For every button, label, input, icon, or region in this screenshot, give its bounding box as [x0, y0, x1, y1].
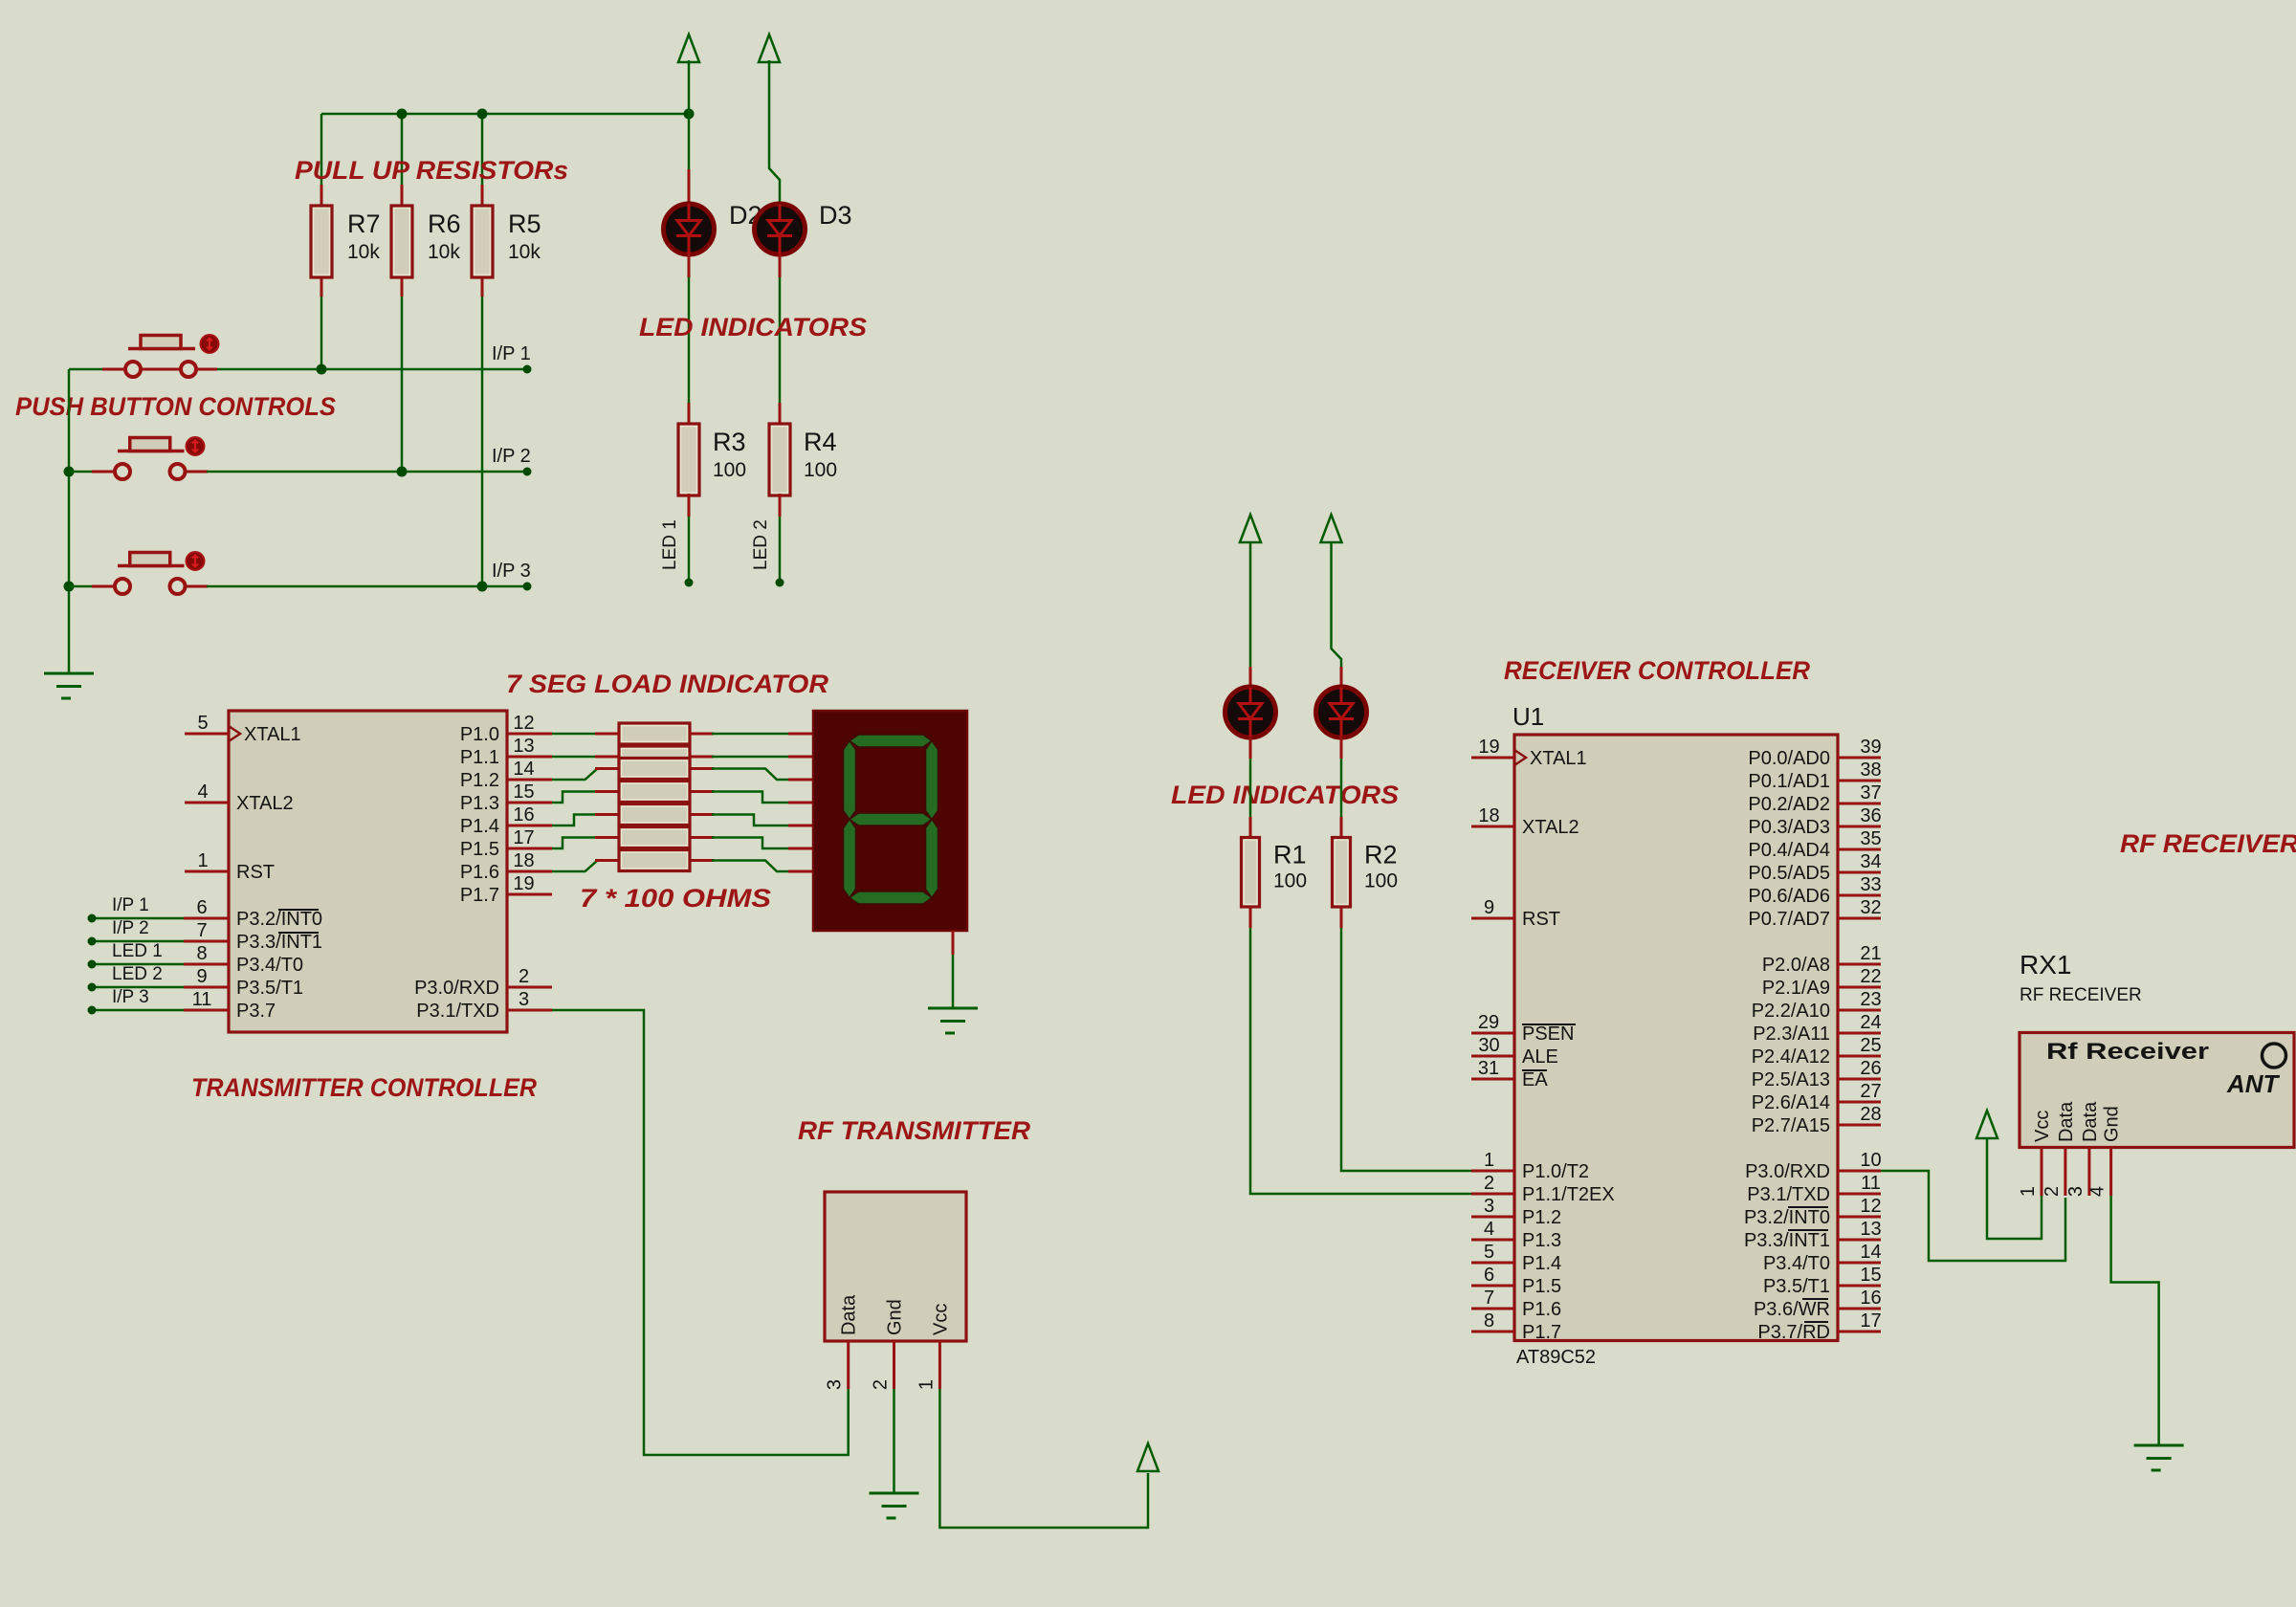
terminal dot I/P 3 (TX side)	[88, 1006, 97, 1015]
svg-text:P2.1/A9: P2.1/A9	[1762, 978, 1830, 999]
svg-text:7 * 100 OHMS: 7 * 100 OHMS	[580, 884, 771, 913]
RX1 pin 2 Data	[2042, 1101, 2077, 1197]
pin stub display segment 5	[788, 848, 813, 850]
svg-text:I/P 1: I/P 1	[112, 895, 149, 915]
pin stubs pack resistor 1	[595, 733, 619, 736]
svg-text:P1.7: P1.7	[460, 885, 499, 906]
wire rail drop to R5	[481, 114, 484, 185]
pin 30 ALE (U1)	[1471, 1035, 1558, 1068]
pin 19 P1.7 (TX)	[460, 873, 552, 906]
svg-text:P1.4: P1.4	[460, 816, 499, 837]
pin 26 P2.5/A13 (U1)	[1752, 1058, 1882, 1090]
svg-text:P3.1/TXD: P3.1/TXD	[416, 1001, 499, 1022]
svg-text:Gnd: Gnd	[885, 1299, 906, 1335]
svg-text:19: 19	[513, 873, 534, 894]
pin 15 P1.3 (TX)	[460, 781, 552, 814]
svg-text:4: 4	[197, 781, 208, 803]
pin 16 P1.4 (TX)	[460, 804, 552, 837]
LED D3	[755, 204, 806, 254]
svg-text:P0.2/AD2: P0.2/AD2	[1748, 794, 1830, 815]
label R6 refdes+value	[428, 209, 461, 263]
pin stubs pack resistor 6	[595, 836, 619, 839]
svg-text:P0.5/AD5: P0.5/AD5	[1748, 863, 1830, 884]
svg-text:27: 27	[1860, 1081, 1881, 1102]
svg-text:P3.3/INT1: P3.3/INT1	[1744, 1230, 1830, 1251]
pin 18 P1.6 (TX)	[460, 850, 552, 883]
pin 19 XTAL1 (U1)	[1471, 737, 1587, 769]
svg-text:P3.0/RXD: P3.0/RXD	[414, 978, 499, 999]
svg-text:P0.1/AD1: P0.1/AD1	[1748, 771, 1830, 792]
wire power arrow D2 feed	[688, 60, 691, 114]
svg-text:2: 2	[2042, 1186, 2063, 1197]
svg-text:P0.3/AD3: P0.3/AD3	[1748, 817, 1830, 838]
svg-text:P2.5/A13: P2.5/A13	[1752, 1069, 1830, 1090]
svg-text:P1.1: P1.1	[460, 747, 499, 768]
pin 32 P0.7/AD7 (U1)	[1748, 897, 1881, 930]
wire display common to ground	[952, 955, 955, 1008]
wire R2 to U1 P1.0	[1341, 928, 1473, 1171]
pin 15 P3.5/T1 (U1)	[1763, 1265, 1882, 1297]
svg-text:7 SEG LOAD INDICATOR: 7 SEG LOAD INDICATOR	[506, 670, 829, 698]
pin 12 P3.2/INT0 (U1)	[1744, 1196, 1882, 1228]
svg-text:37: 37	[1860, 782, 1881, 803]
svg-text:P3.5/T1: P3.5/T1	[1763, 1276, 1830, 1297]
svg-text:RF TRANSMITTER: RF TRANSMITTER	[798, 1116, 1031, 1145]
pin stub display common	[952, 931, 955, 955]
wire D3 power wire	[769, 60, 780, 204]
svg-text:R2: R2	[1364, 841, 1398, 870]
resistor R1	[1242, 838, 1260, 908]
wire wire P1.6 to pack R7	[552, 861, 601, 872]
resistor pack element 5 (100R)	[619, 804, 690, 826]
resistor R3	[678, 424, 699, 495]
svg-text:33: 33	[1860, 874, 1881, 895]
terminal dot I/P2	[523, 468, 532, 476]
svg-text:LED 1: LED 1	[660, 519, 680, 570]
pin 6 P1.5 (U1)	[1471, 1265, 1561, 1297]
wire button3 left lead	[69, 585, 92, 588]
svg-text:10k: 10k	[508, 241, 541, 263]
svg-text:P2.6/A14: P2.6/A14	[1752, 1092, 1830, 1113]
svg-text:P1.5: P1.5	[460, 839, 499, 860]
svg-text:100: 100	[713, 459, 746, 481]
pin stub display segment 2	[788, 779, 813, 781]
svg-text:7: 7	[1484, 1288, 1494, 1309]
RF receiver module body	[2020, 1033, 2294, 1148]
pin stub display segment 3	[788, 802, 813, 804]
svg-text:PUSH BUTTON CONTROLS: PUSH BUTTON CONTROLS	[15, 392, 336, 421]
power symbol VCC arrow (RX LED2)	[1321, 515, 1342, 542]
svg-text:Data: Data	[2056, 1101, 2077, 1142]
svg-text:29: 29	[1478, 1012, 1499, 1033]
svg-text:3: 3	[825, 1379, 846, 1390]
svg-text:9: 9	[196, 966, 207, 987]
wire R5 to I/P3 net	[481, 297, 484, 586]
svg-text:RX1: RX1	[2020, 950, 2071, 980]
svg-text:15: 15	[513, 781, 534, 803]
svg-text:17: 17	[513, 827, 534, 848]
svg-text:12: 12	[1860, 1196, 1881, 1217]
pin 34 P0.5/AD5 (U1)	[1748, 851, 1881, 884]
svg-text:P2.0/A8: P2.0/A8	[1762, 955, 1830, 976]
svg-text:100: 100	[1364, 870, 1398, 892]
svg-text:14: 14	[1860, 1242, 1881, 1263]
svg-text:8: 8	[196, 943, 207, 964]
svg-text:Vcc: Vcc	[2032, 1111, 2053, 1142]
wire button2 left lead	[69, 471, 92, 473]
pin stub LED D2 cathode + wire to R3	[688, 254, 691, 277]
wire button1 left lead	[69, 368, 102, 371]
pin 31 EA	[1471, 1058, 1548, 1090]
wire net I/P 2 to TX pin 7	[96, 940, 184, 943]
wire net LED 1 to TX pin 8	[96, 963, 184, 966]
wire wire P1.3 to pack R4	[552, 792, 598, 803]
svg-text:AT89C52: AT89C52	[1516, 1347, 1596, 1368]
pin 18 XTAL2 (U1)	[1471, 805, 1579, 838]
terminal dot I/P 1 (TX side)	[88, 914, 97, 923]
svg-text:100: 100	[1273, 870, 1307, 892]
pin stub RX LED1 cathode	[1249, 737, 1252, 759]
wire net I/P 3 to TX pin 11	[96, 1009, 184, 1012]
pin stub R3 bottom + LED1 net wire	[688, 494, 691, 517]
wire RX LED1 to R1	[1249, 759, 1252, 817]
svg-text:I/P 3: I/P 3	[492, 561, 531, 582]
resistor R5	[472, 206, 493, 277]
svg-text:EA: EA	[1522, 1069, 1548, 1090]
power symbol VCC arrow (RX1)	[1976, 1111, 1998, 1138]
pin stubs pack resistor 4	[595, 790, 619, 793]
pin 22 P2.1/A9 (U1)	[1762, 966, 1882, 999]
wire RX1 Gnd wire	[2111, 1196, 2159, 1445]
svg-text:32: 32	[1860, 897, 1881, 918]
svg-text:1: 1	[1484, 1150, 1494, 1171]
svg-text:8: 8	[1484, 1310, 1494, 1332]
svg-text:P3.3/INT1: P3.3/INT1	[236, 932, 322, 953]
svg-text:XTAL1: XTAL1	[1530, 748, 1587, 769]
svg-text:P3.7/RD: P3.7/RD	[1757, 1322, 1830, 1343]
pin 2 P1.1/T2EX (U1)	[1471, 1173, 1615, 1205]
ground symbol GND (RF transmitter)	[870, 1493, 919, 1518]
wire wire P1.4 to pack R5	[552, 815, 598, 826]
wire VCC rail	[321, 113, 689, 116]
pin 24 P2.3/A11 (U1)	[1753, 1012, 1881, 1045]
svg-text:10k: 10k	[347, 241, 380, 263]
wire TXD net (P3.1 to RF transmitter Data)	[552, 1010, 849, 1455]
svg-text:3: 3	[519, 989, 529, 1010]
wire wire pack R3 to display seg2	[712, 769, 788, 781]
resistor pack element 1 (100R)	[619, 723, 690, 744]
pin 7 P1.6 (U1)	[1471, 1288, 1561, 1320]
wire I/P1 net wire	[217, 368, 525, 371]
RF transmitter pin 2 Gnd	[871, 1299, 906, 1390]
wire rail drop to R7	[320, 114, 323, 185]
svg-text:10k: 10k	[428, 241, 460, 263]
svg-text:3: 3	[1484, 1196, 1494, 1217]
label R4 refdes+value	[804, 428, 837, 481]
pin stub display segment 1	[788, 756, 813, 759]
pin stub R4 bottom + LED2 net wire	[779, 494, 782, 517]
svg-text:P3.2/INT0: P3.2/INT0	[1744, 1207, 1830, 1228]
svg-text:P1.2: P1.2	[1522, 1207, 1561, 1228]
label R2 refdes+value	[1364, 841, 1398, 892]
svg-text:Gnd: Gnd	[2102, 1106, 2123, 1142]
svg-text:6: 6	[196, 897, 207, 918]
pin 6 P3.2/INT0	[184, 897, 322, 930]
svg-text:16: 16	[513, 804, 534, 826]
pin stubs pack resistor 7	[595, 859, 619, 862]
RF transmitter module body	[825, 1192, 966, 1341]
svg-text:19: 19	[1478, 737, 1499, 758]
pin 5 XTAL1 (TX)	[185, 713, 301, 745]
svg-text:100: 100	[804, 459, 837, 481]
pin 37 P0.2/AD2 (U1)	[1748, 782, 1881, 815]
pin 35 P0.4/AD4 (U1)	[1748, 828, 1881, 861]
wire wire P1.2 to pack R3	[552, 769, 601, 781]
wire RF transmitter Gnd wire	[893, 1389, 895, 1493]
7-segment digit segments	[844, 735, 938, 904]
label R5 refdes+value	[508, 209, 541, 263]
wire wire P1.0 to pack R1	[552, 733, 598, 736]
svg-text:XTAL1: XTAL1	[244, 724, 301, 745]
resistor pack element 6 (100R)	[619, 827, 690, 848]
svg-text:35: 35	[1860, 828, 1881, 849]
pin 13 P3.3/INT1 (U1)	[1744, 1219, 1882, 1251]
svg-text:16: 16	[1860, 1288, 1881, 1309]
svg-text:Data: Data	[2080, 1101, 2101, 1142]
wire RXD net (U1 P3.0 to RX1 Data)	[1881, 1171, 2065, 1261]
terminal dot I/P1	[523, 365, 532, 374]
pin stub display segment 6	[788, 870, 813, 873]
RF transmitter pin 1 Vcc	[916, 1304, 951, 1390]
wire RX1 Vcc wire	[1987, 1138, 2042, 1239]
svg-text:RECEIVER CONTROLLER: RECEIVER CONTROLLER	[1504, 656, 1810, 685]
pin 5 P1.4 (U1)	[1471, 1242, 1561, 1274]
pin 28 P2.7/A15 (U1)	[1752, 1104, 1882, 1136]
svg-text:2: 2	[1484, 1173, 1494, 1194]
svg-text:4: 4	[1484, 1219, 1494, 1240]
svg-text:4: 4	[2087, 1186, 2108, 1197]
pin stub button3 right	[186, 585, 208, 588]
wire wire pack R1 to display seg0	[712, 733, 788, 736]
svg-text:ANT: ANT	[2226, 1069, 2281, 1098]
svg-text:P1.6: P1.6	[1522, 1299, 1561, 1320]
pin stub display segment 0	[788, 733, 813, 736]
pin 11 P3.1/TXD (U1)	[1747, 1173, 1881, 1205]
svg-text:36: 36	[1860, 805, 1881, 826]
svg-text:14: 14	[513, 759, 534, 780]
pin stubs R7	[320, 185, 323, 208]
svg-text:PULL UP RESISTORs: PULL UP RESISTORs	[295, 156, 568, 185]
svg-text:11: 11	[192, 989, 212, 1010]
svg-text:Vcc: Vcc	[930, 1304, 951, 1335]
terminal dot I/P3	[523, 583, 532, 591]
resistor R6	[391, 206, 412, 277]
pin 17 P1.5 (TX)	[460, 827, 552, 860]
power symbol VCC arrow (D3 branch)	[759, 34, 780, 62]
svg-text:6: 6	[1484, 1265, 1494, 1286]
svg-text:Rf Receiver: Rf Receiver	[2046, 1039, 2209, 1065]
pin 39 P0.0/AD0 (U1)	[1748, 737, 1881, 769]
pin stub button3 left	[92, 585, 115, 588]
wire RX LED2 power wire	[1332, 542, 1342, 667]
pin stub RX LED1 anode	[1249, 667, 1252, 688]
pin stubs pack resistor 5	[595, 813, 619, 816]
label R1 refdes+value	[1273, 841, 1307, 892]
RX1 pin 3 Data	[2065, 1101, 2101, 1197]
svg-text:34: 34	[1860, 851, 1881, 872]
svg-text:1: 1	[197, 850, 208, 871]
svg-text:P1.3: P1.3	[1522, 1230, 1561, 1251]
terminal dot LED 2 (TX side)	[88, 983, 97, 992]
terminal dot LED 1 (TX side)	[88, 960, 97, 969]
pin 1 RST (TX)	[185, 850, 275, 883]
push button BTN1	[125, 335, 219, 377]
svg-text:2: 2	[871, 1379, 892, 1390]
svg-text:P0.6/AD6: P0.6/AD6	[1748, 886, 1830, 907]
RF transmitter pin 3 Data	[825, 1294, 860, 1390]
wire RF transmitter Vcc wire	[939, 1389, 1148, 1528]
svg-text:30: 30	[1478, 1035, 1499, 1056]
resistor R4	[769, 424, 790, 495]
LED D2	[664, 204, 715, 254]
junction I/P1 / R7	[317, 364, 327, 375]
wire wire pack R2 to display seg1	[712, 756, 788, 759]
terminal dot LED2 net	[776, 579, 784, 587]
pin 33 P0.6/AD6 (U1)	[1748, 874, 1881, 907]
pin 3 P3.1/TXD (TX)	[416, 989, 552, 1022]
pin stub RX LED2 cathode	[1340, 737, 1343, 759]
junction rail/LED D2 branch	[684, 109, 695, 120]
junction rail/R6	[397, 109, 408, 120]
svg-text:P1.7: P1.7	[1522, 1322, 1561, 1343]
pin stubs R6	[401, 185, 404, 208]
resistor R7	[311, 206, 332, 277]
svg-text:10: 10	[1860, 1150, 1881, 1171]
wire R7 to I/P1 net	[320, 297, 323, 369]
svg-text:2: 2	[519, 966, 529, 987]
svg-text:P1.6: P1.6	[460, 862, 499, 883]
pin stub R2 bottom	[1340, 907, 1343, 928]
pin stub R2 top	[1340, 817, 1343, 839]
junction bus/button3	[64, 582, 75, 592]
pin 10 P3.0/RXD (U1)	[1745, 1150, 1882, 1182]
wire I/P2 net wire	[207, 471, 525, 473]
svg-text:P3.7: P3.7	[236, 1001, 276, 1022]
svg-text:P1.4: P1.4	[1522, 1253, 1561, 1274]
svg-text:31: 31	[1478, 1058, 1499, 1079]
svg-text:RST: RST	[1522, 909, 1560, 930]
svg-text:22: 22	[1860, 966, 1881, 987]
svg-text:1: 1	[916, 1379, 937, 1390]
wire R6 to I/P2 net	[401, 297, 404, 472]
pin stub button1 right	[141, 368, 217, 371]
pin 14 P1.2 (TX)	[460, 759, 552, 791]
svg-text:11: 11	[1861, 1173, 1881, 1194]
svg-text:ALE: ALE	[1522, 1046, 1558, 1068]
svg-text:R7: R7	[347, 209, 381, 238]
pin 13 P1.1 (TX)	[460, 736, 552, 768]
pin 29 PSEN	[1471, 1012, 1576, 1045]
svg-text:5: 5	[1484, 1242, 1494, 1263]
resistor pack element 4 (100R)	[619, 781, 690, 803]
svg-text:XTAL2: XTAL2	[1522, 817, 1579, 838]
svg-text:RF RECEIVER: RF RECEIVER	[2020, 985, 2142, 1005]
svg-text:15: 15	[1860, 1265, 1881, 1286]
IC U1 AT89C52 body	[1514, 735, 1838, 1341]
svg-text:9: 9	[1484, 897, 1494, 918]
svg-text:I/P 2: I/P 2	[492, 446, 531, 467]
svg-text:LED 1: LED 1	[112, 941, 163, 961]
svg-text:LED 2: LED 2	[751, 519, 771, 570]
LED RX LED2	[1316, 687, 1367, 737]
svg-text:25: 25	[1860, 1035, 1881, 1056]
pin 12 P1.0 (TX)	[460, 713, 552, 745]
ground symbol GND (display)	[928, 1008, 978, 1033]
pin stub RX LED2 anode	[1340, 667, 1343, 688]
svg-text:P1.2: P1.2	[460, 770, 499, 791]
wire wire pack R5 to display seg4	[712, 815, 788, 826]
svg-text:RST: RST	[236, 862, 275, 883]
7-segment display body	[813, 711, 967, 931]
wire wire pack R6 to display seg5	[712, 838, 788, 849]
svg-text:RF RECEIVER: RF RECEIVER	[2120, 829, 2296, 858]
label R3 refdes+value	[713, 428, 746, 481]
push button BTN2	[115, 437, 205, 479]
pin stub LED D2 anode	[688, 114, 691, 169]
svg-text:P0.7/AD7: P0.7/AD7	[1748, 909, 1830, 930]
wire net LED 2 to TX pin 9	[96, 986, 184, 989]
svg-text:I/P 3: I/P 3	[112, 987, 149, 1007]
pin 25 P2.4/A12 (U1)	[1752, 1035, 1882, 1068]
pin stubs pack resistor 3	[595, 767, 619, 770]
pin stub button2 left	[92, 471, 115, 473]
svg-text:13: 13	[1860, 1219, 1881, 1240]
svg-text:18: 18	[1478, 805, 1499, 826]
pin stub display segment 4	[788, 825, 813, 827]
terminal dot I/P 2 (TX side)	[88, 937, 97, 946]
svg-text:17: 17	[1860, 1310, 1881, 1332]
resistor pack element 7 (100R)	[619, 850, 690, 871]
wire RX LED1 power wire	[1249, 542, 1252, 667]
pin stub R1 bottom	[1249, 907, 1252, 928]
power symbol VCC arrow (RF transmitter)	[1137, 1443, 1159, 1471]
svg-text:P3.4/T0: P3.4/T0	[1763, 1253, 1830, 1274]
pin 36 P0.3/AD3 (U1)	[1748, 805, 1881, 838]
pin 9 P3.5/T1	[184, 966, 303, 999]
svg-text:P1.1/T2EX: P1.1/T2EX	[1522, 1184, 1615, 1205]
ground symbol GND (buttons)	[44, 673, 94, 698]
ground symbol GND (RX1)	[2134, 1445, 2184, 1470]
svg-text:P2.2/A10: P2.2/A10	[1752, 1001, 1830, 1022]
svg-text:P3.4/T0: P3.4/T0	[236, 955, 303, 976]
svg-text:R6: R6	[428, 209, 461, 238]
svg-text:Data: Data	[839, 1294, 860, 1335]
svg-text:P3.2/INT0: P3.2/INT0	[236, 909, 322, 930]
pin 16 P3.6/WR (U1)	[1754, 1288, 1882, 1320]
pin 7 P3.3/INT1	[184, 920, 322, 953]
junction bus/button2	[64, 467, 75, 477]
svg-text:TRANSMITTER CONTROLLER: TRANSMITTER CONTROLLER	[191, 1073, 537, 1102]
wire rail drop to R6	[401, 114, 404, 185]
wire net I/P 1 to TX pin 6	[96, 917, 184, 920]
pin 2 P3.0/RXD (TX)	[414, 966, 552, 999]
svg-text:P1.0: P1.0	[460, 724, 499, 745]
svg-text:R5: R5	[508, 209, 541, 238]
power symbol VCC arrow (RX LED1)	[1240, 515, 1261, 542]
pin 1 P1.0/T2 (U1)	[1471, 1150, 1589, 1182]
svg-text:P0.4/AD4: P0.4/AD4	[1748, 840, 1830, 861]
resistor pack element 2 (100R)	[619, 746, 690, 767]
